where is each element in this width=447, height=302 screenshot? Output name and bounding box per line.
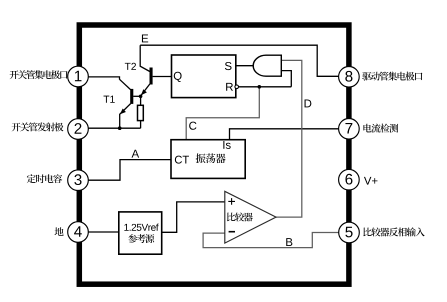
pin 1 label 开关管集电极口 <box>10 70 68 79</box>
pin 5 number <box>345 227 352 238</box>
wire T1 collector diagonal <box>120 79 131 89</box>
pin 2 number <box>75 123 82 134</box>
wire T2 collector to node E <box>140 45 150 71</box>
junction node C on R line <box>258 85 262 89</box>
wire node E to pin8 <box>140 45 340 76</box>
AND gate (faces left) <box>253 55 281 76</box>
flip-flop R inverting bubble <box>235 85 239 89</box>
SR flip-flop box <box>172 55 236 98</box>
1.25V reference box <box>119 212 162 254</box>
transistor label T1 <box>104 96 115 103</box>
IC outline border <box>79 25 349 284</box>
comparator label 比较器 <box>227 212 253 221</box>
pin 2 label 开关管发射极 <box>12 122 64 131</box>
wire resistor bottom to pin2 line <box>140 121 142 129</box>
reference label 参考源 <box>128 234 154 243</box>
node label C <box>189 122 196 130</box>
transistor T2 base bar <box>150 68 153 85</box>
pin 1 number <box>75 71 82 81</box>
pin 4 number <box>74 226 82 236</box>
comparator triangle <box>225 191 276 243</box>
comparator - input sign <box>229 231 235 233</box>
wire R input line <box>238 86 291 88</box>
oscillator label 振荡器 <box>196 153 226 163</box>
pin 3 label 定时电容 <box>27 174 62 183</box>
wire node C to oscillator <box>186 87 259 140</box>
resistor between T1 base and pin2 line <box>138 105 144 120</box>
pin 6 label V+ <box>364 177 378 185</box>
wire node to resistor top <box>140 96 142 105</box>
transistor label T2 <box>125 63 136 70</box>
pin 3 number <box>74 174 81 185</box>
transistor T2 emitter arrow <box>141 89 147 95</box>
wire T1 emitter diagonal <box>120 104 131 129</box>
wire pin3 to oscillator CT (node A) <box>87 160 171 181</box>
pin 4 circle <box>68 222 89 243</box>
pin 5 circle <box>339 222 360 243</box>
wire S input from AND output <box>236 65 254 67</box>
pin 4 label 地 <box>55 227 64 236</box>
pin 8 circle <box>339 67 360 88</box>
pin 8 label 驱动管集电极口 <box>362 72 422 81</box>
reference label 1.25Vref <box>124 224 158 231</box>
wire pin2 emitter line <box>87 127 141 129</box>
wire Q output to T2 base <box>153 76 172 78</box>
oscillator box <box>171 140 245 179</box>
flip-flop label R <box>226 83 233 91</box>
wire pin1 to T1 collector <box>87 77 120 80</box>
pin 6 number <box>345 174 352 185</box>
pin 7 circle <box>339 119 360 140</box>
wire pin4 to reference <box>87 231 119 233</box>
pin 7 label 电流检测 <box>363 124 398 133</box>
node label D <box>305 99 312 107</box>
wire T2 emitter diagonal <box>141 84 150 96</box>
node label E <box>142 34 148 42</box>
wire T1 base to node <box>133 95 140 97</box>
pin 3 circle <box>68 170 89 191</box>
node label B <box>286 238 292 246</box>
junction T1 base / T2 emitter / resistor <box>139 95 143 99</box>
wire node D comparator output to AND upper input <box>276 60 302 217</box>
wire pin7 to oscillator Is <box>230 129 341 140</box>
pin 1 circle <box>68 66 89 87</box>
pin 7 number <box>345 123 352 133</box>
junction T1 emitter on pin2 line <box>118 126 122 130</box>
pin 5 label 比较器反相输入 <box>363 227 424 236</box>
comparator + input sign <box>228 198 235 205</box>
wire reference to comparator + input <box>162 202 225 232</box>
wire node B comparator - input to pin5 <box>203 233 340 248</box>
pin 6 circle <box>339 169 360 190</box>
flip-flop label S <box>225 62 232 70</box>
wire AND lower input <box>281 71 291 87</box>
oscillator pin label Is <box>223 141 230 149</box>
transistor T1 base bar <box>130 89 133 104</box>
flip-flop label Q <box>174 72 182 82</box>
pin 2 circle <box>68 119 89 140</box>
node label A <box>132 150 140 158</box>
oscillator pin label CT <box>175 156 189 164</box>
transistor T1 emitter arrow <box>120 109 126 115</box>
pin 8 number <box>345 71 352 82</box>
